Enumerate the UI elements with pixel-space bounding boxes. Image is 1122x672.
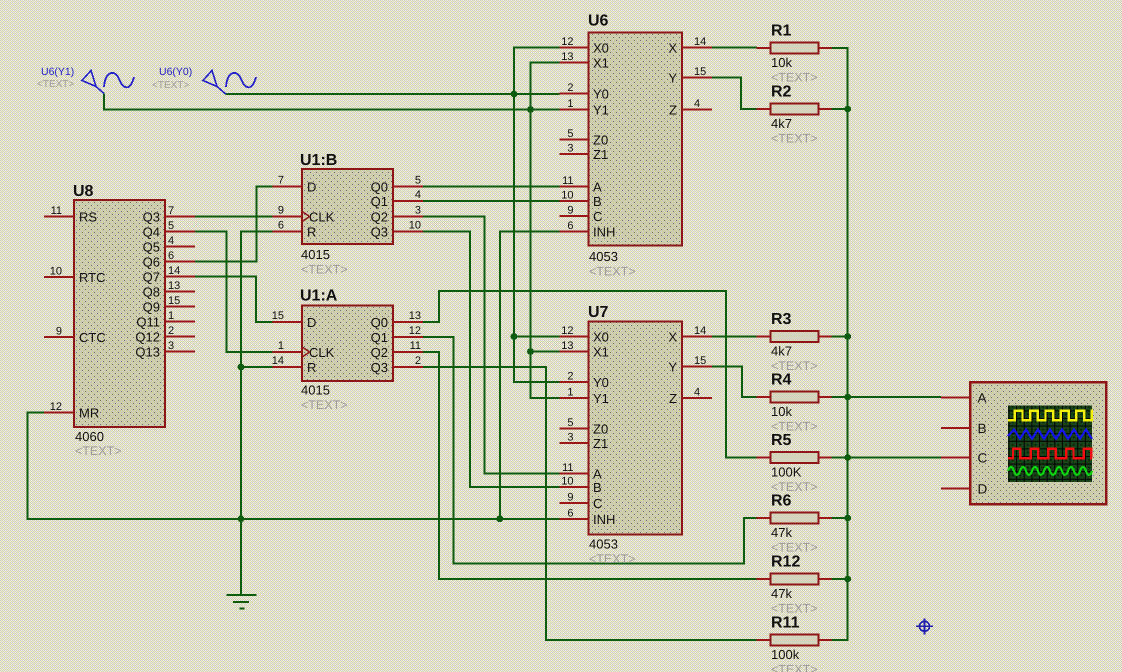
svg-text:R1: R1 — [771, 23, 792, 40]
svg-text:U1:A: U1:A — [300, 288, 338, 305]
svg-text:Q12: Q12 — [135, 330, 160, 345]
svg-text:Q2: Q2 — [371, 345, 388, 360]
junction ground rail at gnd stem — [238, 515, 245, 522]
wire U6.Y to R2 — [712, 78, 757, 110]
svg-text:R5: R5 — [771, 432, 792, 449]
junction ground rail at U6.INH drop — [496, 515, 503, 522]
svg-text:D: D — [307, 180, 316, 195]
svg-text:Z0: Z0 — [593, 422, 608, 437]
svg-text:Q9: Q9 — [143, 300, 160, 315]
wire U8.Q3 to U1:B.CLK — [195, 216, 273, 218]
U8 pin 5 Q4 — [165, 231, 195, 233]
U8 pin 6 Q6 — [165, 261, 195, 263]
svg-text:Q3: Q3 — [143, 210, 160, 225]
svg-text:Z: Z — [669, 103, 677, 118]
U6 pin 2 Y0 — [560, 93, 589, 95]
svg-text:15: 15 — [694, 355, 706, 367]
svg-text:3: 3 — [415, 205, 421, 217]
U7 pin 13 X1 — [560, 351, 589, 353]
wire bus to scope A — [848, 396, 941, 398]
resistor R2 4k7 — [757, 108, 771, 110]
svg-text:Q13: Q13 — [135, 345, 160, 360]
U7 pin 4 Z — [682, 397, 712, 399]
svg-text:9: 9 — [56, 326, 62, 338]
wire right bus vertical — [832, 48, 848, 640]
svg-text:4060: 4060 — [75, 429, 104, 444]
svg-text:4015: 4015 — [301, 247, 330, 262]
junction bus R5 — [844, 454, 851, 461]
U8 pin 4 Q5 — [165, 246, 195, 248]
svg-text:R11: R11 — [771, 615, 800, 632]
wire U1:B.Q2 to U7.A — [423, 217, 560, 474]
IC U1:A 4015 body — [302, 306, 393, 382]
resistor R3 4k7 — [757, 336, 771, 338]
svg-text:<TEXT>: <TEXT> — [589, 552, 636, 566]
svg-text:3: 3 — [567, 432, 573, 444]
svg-text:CLK: CLK — [309, 345, 335, 360]
svg-text:U6(Y0): U6(Y0) — [159, 66, 192, 78]
U7 pin 6 INH — [560, 518, 589, 520]
U1:B pin 5 Q0 — [393, 186, 423, 188]
svg-text:R6: R6 — [771, 493, 792, 510]
svg-text:1: 1 — [168, 310, 174, 322]
svg-text:10: 10 — [561, 476, 573, 488]
svg-text:12: 12 — [50, 401, 62, 413]
U8 pin 9 CTC — [44, 336, 74, 338]
svg-text:6: 6 — [567, 508, 573, 520]
svg-text:4k7: 4k7 — [771, 116, 792, 131]
svg-text:4: 4 — [694, 98, 700, 110]
junction net-B U7.X1 — [527, 348, 534, 355]
svg-text:47k: 47k — [771, 525, 792, 540]
junction bus R4 — [844, 394, 851, 401]
U7 pin 10 B — [560, 486, 589, 488]
trace D green sine wave — [1008, 467, 1092, 475]
svg-text:Q4: Q4 — [143, 225, 160, 240]
junction bus R3 — [844, 333, 851, 340]
svg-text:C: C — [978, 451, 988, 466]
U6 pin 15 Y — [682, 77, 712, 79]
wire generator U6(Y1) to U6.Y1 pin — [104, 94, 560, 110]
wire R5 right to bus — [832, 457, 848, 459]
trace A yellow square wave — [1008, 411, 1092, 420]
svg-text:7: 7 — [168, 205, 174, 217]
svg-text:100K: 100K — [771, 465, 802, 480]
ground — [227, 594, 257, 596]
junction bus R2 — [844, 106, 851, 113]
svg-text:13: 13 — [168, 280, 180, 292]
svg-text:<TEXT>: <TEXT> — [771, 541, 818, 555]
wire U8.Q4 to U1:A.CLK — [195, 232, 273, 353]
svg-text:U6(Y1): U6(Y1) — [41, 66, 74, 78]
resistor R1 10k — [757, 47, 771, 49]
junction bus R6 — [844, 515, 851, 522]
svg-text:9: 9 — [278, 205, 284, 217]
junction at net-A and Y0 line — [511, 91, 518, 98]
U8 pin 15 Q9 — [165, 306, 195, 308]
wire U1:A.Q0 to R5 — [423, 291, 757, 458]
U8 pin 13 Q8 — [165, 291, 195, 293]
svg-text:X1: X1 — [593, 56, 609, 71]
U8 pin 7 Q3 — [165, 216, 195, 218]
U7 pin 12 X0 — [560, 336, 589, 338]
svg-text:B: B — [593, 194, 602, 209]
resistor R4 10k — [757, 396, 771, 398]
resistor R11 100k — [757, 639, 771, 641]
U1:B pin 10 Q3 — [393, 231, 423, 233]
svg-text:Q6: Q6 — [143, 255, 160, 270]
wire U8.MR loop to ground net — [28, 413, 560, 519]
wire U1:B.Q0 to U6.A — [423, 186, 560, 188]
svg-text:Z0: Z0 — [593, 133, 608, 148]
U1:A pin 14 R — [273, 366, 303, 368]
U6 pin 14 X — [682, 47, 712, 49]
svg-text:X0: X0 — [593, 41, 609, 56]
U6 pin 12 X0 — [560, 47, 589, 49]
wire R12 right to bus — [832, 578, 848, 580]
U1:B pin 3 Q2 — [393, 216, 423, 218]
svg-text:Z1: Z1 — [593, 147, 608, 162]
svg-text:4: 4 — [694, 387, 700, 399]
svg-text:Y0: Y0 — [593, 87, 609, 102]
svg-text:10: 10 — [409, 220, 421, 232]
U8 pin 1 Q11 — [165, 321, 195, 323]
svg-text:Q11: Q11 — [136, 315, 160, 330]
wire U7.X to R3 — [712, 336, 757, 338]
wire generator U6(Y0) to U6.Y0 pin — [226, 93, 560, 95]
svg-text:C: C — [593, 209, 602, 224]
svg-text:4: 4 — [168, 235, 174, 247]
U1:B pin 6 R — [273, 231, 303, 233]
svg-text:6: 6 — [567, 220, 573, 232]
U6 pin 1 Y1 — [560, 109, 589, 111]
IC U1:B 4015 body — [302, 169, 393, 244]
svg-text:9: 9 — [567, 492, 573, 504]
svg-text:X: X — [668, 330, 677, 345]
svg-text:<TEXT>: <TEXT> — [771, 71, 818, 85]
svg-text:R2: R2 — [771, 84, 792, 101]
wire U1:B.Q1 to U6.B — [423, 200, 560, 202]
svg-text:5: 5 — [567, 417, 573, 429]
svg-text:10k: 10k — [771, 404, 792, 419]
svg-text:CTC: CTC — [79, 330, 106, 345]
U1:A pin 2 Q3 — [393, 366, 423, 368]
U1:A pin 1 CLK — [273, 351, 303, 353]
svg-text:<TEXT>: <TEXT> — [301, 398, 348, 412]
svg-text:14: 14 — [168, 265, 180, 277]
U7 pin 14 X — [682, 336, 712, 338]
wire net-B branch to U7.X1 — [531, 351, 560, 353]
U6 pin 13 X1 — [560, 62, 589, 64]
svg-text:X: X — [668, 41, 677, 56]
wire U8.Q7 to U1:A.D — [195, 277, 273, 323]
wire R6 right to bus — [832, 517, 848, 519]
wire net-A vertical U6.X0 to U7.Y0 — [514, 48, 560, 383]
svg-text:15: 15 — [168, 295, 180, 307]
svg-text:<TEXT>: <TEXT> — [771, 663, 818, 672]
svg-text:13: 13 — [409, 310, 421, 322]
svg-text:R: R — [307, 225, 316, 240]
U1:A pin 13 Q0 — [393, 321, 423, 323]
U1:A pin 15 D — [273, 321, 303, 323]
svg-text:<TEXT>: <TEXT> — [771, 132, 818, 146]
junction at net-B and Y1 line — [527, 106, 534, 113]
resistor R5 100K — [757, 457, 771, 459]
U7 pin 1 Y1 — [560, 397, 589, 399]
oscilloscope screen — [1008, 406, 1092, 483]
junction R-net at U1:A.R — [238, 364, 245, 371]
U6 pin 4 Z — [682, 109, 712, 111]
svg-text:U1:B: U1:B — [300, 152, 337, 169]
svg-text:15: 15 — [272, 310, 284, 322]
svg-text:12: 12 — [561, 325, 573, 337]
svg-text:4053: 4053 — [589, 537, 618, 552]
svg-text:Y: Y — [668, 360, 677, 375]
svg-text:Q1: Q1 — [371, 330, 388, 345]
svg-text:2: 2 — [567, 371, 573, 383]
svg-text:14: 14 — [272, 355, 284, 367]
wire U6.INH down to ground rail — [500, 232, 560, 519]
svg-text:R: R — [307, 360, 316, 375]
svg-text:6: 6 — [278, 220, 284, 232]
U6 pin 11 A — [560, 186, 589, 188]
svg-text:14: 14 — [694, 36, 706, 48]
svg-text:<TEXT>: <TEXT> — [301, 263, 348, 277]
svg-text:<TEXT>: <TEXT> — [37, 79, 74, 90]
U8 pin 2 Q12 — [165, 336, 195, 338]
trace B blue triangle wave — [1008, 430, 1092, 439]
svg-text:100k: 100k — [771, 647, 800, 662]
svg-text:INH: INH — [593, 512, 615, 527]
svg-text:13: 13 — [561, 51, 573, 63]
wire bus to scope C — [848, 457, 941, 459]
svg-text:Q5: Q5 — [143, 240, 160, 255]
svg-text:B: B — [593, 480, 602, 495]
svg-text:U6: U6 — [588, 13, 609, 30]
svg-text:Q1: Q1 — [371, 194, 388, 209]
svg-text:12: 12 — [409, 325, 421, 337]
svg-text:5: 5 — [567, 128, 573, 140]
U1:B pin 9 CLK — [273, 216, 303, 218]
svg-text:3: 3 — [168, 340, 174, 352]
U7 pin 11 A — [560, 473, 589, 475]
svg-text:Q8: Q8 — [143, 285, 160, 300]
junction bus R12 — [844, 576, 851, 583]
junction net-A U7.X0 — [511, 333, 518, 340]
svg-text:R3: R3 — [771, 311, 792, 328]
svg-text:14: 14 — [694, 325, 706, 337]
svg-text:CLK: CLK — [309, 210, 335, 225]
svg-text:3: 3 — [567, 143, 573, 155]
svg-text:<TEXT>: <TEXT> — [75, 444, 122, 458]
IC U7 4053 body — [589, 322, 683, 535]
svg-text:Q3: Q3 — [371, 360, 388, 375]
IC U6 4053 body — [589, 33, 683, 246]
wire U1:B.Q3 to U7.B — [423, 232, 560, 488]
U1:A pin 12 Q1 — [393, 336, 423, 338]
svg-text:<TEXT>: <TEXT> — [152, 80, 189, 91]
svg-text:U8: U8 — [73, 183, 94, 200]
U6 pin 6 INH — [560, 231, 589, 233]
svg-text:R12: R12 — [771, 554, 800, 571]
svg-text:11: 11 — [410, 340, 421, 352]
svg-text:Z: Z — [669, 391, 677, 406]
svg-text:INH: INH — [593, 225, 615, 240]
svg-text:A: A — [978, 391, 987, 406]
svg-text:9: 9 — [567, 205, 573, 217]
IC U8 4060 body — [74, 200, 165, 427]
wire U1:B.R to ground rail — [241, 232, 273, 595]
svg-text:Y0: Y0 — [593, 375, 609, 390]
svg-text:10: 10 — [50, 266, 62, 278]
U6 pin 5 Z0 — [560, 139, 589, 141]
wire U8.Q6 to U1:B.D — [195, 187, 273, 262]
resistor R12 47k — [757, 578, 771, 580]
wire net-A branch to U7.X0 — [514, 336, 560, 338]
svg-text:D: D — [978, 482, 988, 497]
svg-text:5: 5 — [415, 175, 421, 187]
svg-text:Q0: Q0 — [371, 315, 388, 330]
U8 pin 3 Q13 — [165, 351, 195, 353]
oscilloscope input D — [941, 488, 970, 490]
svg-text:Q7: Q7 — [143, 270, 160, 285]
svg-text:<TEXT>: <TEXT> — [771, 602, 818, 616]
svg-text:Y1: Y1 — [593, 391, 609, 406]
svg-text:4015: 4015 — [301, 383, 330, 398]
svg-text:6: 6 — [168, 250, 174, 262]
svg-text:12: 12 — [561, 36, 573, 48]
wire U1:A.Q1 to R6 — [423, 337, 757, 564]
wire R3 right to bus — [832, 336, 848, 338]
svg-text:15: 15 — [694, 66, 706, 78]
svg-text:Z1: Z1 — [593, 436, 608, 451]
svg-text:10k: 10k — [771, 55, 792, 70]
wire U1:A.Q2 to R12 — [423, 352, 757, 579]
U1:B pin 7 D — [273, 186, 303, 188]
svg-text:1: 1 — [567, 98, 573, 110]
wire R2 right to bus — [832, 108, 848, 110]
U8 pin 10 RTC — [44, 276, 74, 278]
svg-text:U7: U7 — [588, 304, 609, 321]
svg-text:X0: X0 — [593, 330, 609, 345]
U7 pin 3 Z1 — [560, 442, 589, 444]
resistor R6 47k — [757, 517, 771, 519]
svg-text:Q0: Q0 — [371, 180, 388, 195]
U7 pin 2 Y0 — [560, 381, 589, 383]
oscilloscope body — [970, 382, 1106, 504]
U6 pin 9 C — [560, 215, 589, 217]
U8 pin 11 RS — [44, 216, 74, 218]
svg-text:2: 2 — [415, 355, 421, 367]
svg-text:2: 2 — [168, 325, 174, 337]
svg-text:11: 11 — [562, 175, 573, 187]
svg-text:<TEXT>: <TEXT> — [589, 265, 636, 279]
svg-text:11: 11 — [51, 205, 62, 217]
svg-text:B: B — [978, 421, 987, 436]
svg-text:A: A — [593, 180, 602, 195]
svg-text:R4: R4 — [771, 372, 792, 389]
U6 pin 3 Z1 — [560, 153, 589, 155]
svg-text:C: C — [593, 496, 602, 511]
wire U1:A.Q3 to R11 — [423, 367, 757, 640]
U7 pin 9 C — [560, 502, 589, 504]
U8 pin 12 MR — [44, 412, 74, 414]
svg-text:10: 10 — [561, 190, 573, 202]
U1:A pin 11 Q2 — [393, 351, 423, 353]
svg-text:Q3: Q3 — [371, 225, 388, 240]
svg-text:MR: MR — [79, 406, 99, 421]
svg-text:11: 11 — [562, 462, 573, 474]
svg-text:RS: RS — [79, 210, 97, 225]
wire U7.Y to R4 — [712, 367, 757, 398]
wire R4 right to bus — [832, 396, 848, 398]
svg-text:47k: 47k — [771, 586, 792, 601]
svg-text:4: 4 — [415, 189, 421, 201]
svg-text:5: 5 — [168, 220, 174, 232]
oscilloscope input A — [941, 397, 970, 399]
U6 pin 10 B — [560, 200, 589, 202]
U7 pin 15 Y — [682, 366, 712, 368]
svg-text:Y: Y — [668, 71, 677, 86]
wire net-B vertical U6.X1 to U7.Y1 — [531, 63, 560, 399]
svg-text:7: 7 — [278, 175, 284, 187]
trace C red square wave — [1008, 449, 1092, 458]
svg-text:1: 1 — [278, 340, 284, 352]
svg-text:13: 13 — [561, 340, 573, 352]
wire U6.X to R1 — [712, 47, 757, 49]
svg-text:4k7: 4k7 — [771, 344, 792, 359]
U8 pin 14 Q7 — [165, 276, 195, 278]
svg-text:Y1: Y1 — [593, 103, 609, 118]
svg-text:2: 2 — [567, 82, 573, 94]
svg-text:1: 1 — [567, 387, 573, 399]
svg-text:D: D — [307, 315, 316, 330]
U7 pin 5 Z0 — [560, 428, 589, 430]
oscilloscope input C — [941, 457, 970, 459]
svg-text:X1: X1 — [593, 345, 609, 360]
origin crosshair marker — [916, 618, 933, 634]
svg-text:4053: 4053 — [589, 249, 618, 264]
oscilloscope input B — [941, 427, 970, 429]
U1:B pin 4 Q1 — [393, 200, 423, 202]
svg-text:RTC: RTC — [79, 270, 105, 285]
wire branch to U1:A.R — [241, 366, 273, 368]
svg-text:Q2: Q2 — [371, 210, 388, 225]
